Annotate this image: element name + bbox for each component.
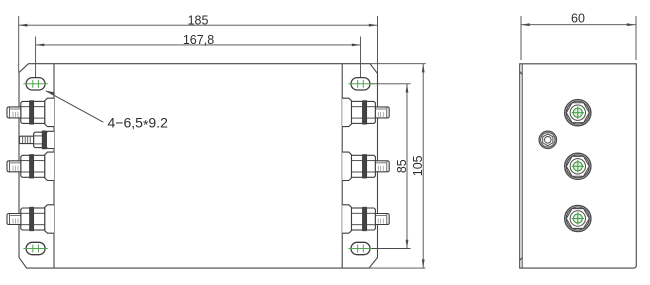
front view right flange line bbox=[341, 64, 343, 268]
terminal R3 bbox=[342, 205, 389, 233]
dimension 167,8 bbox=[36, 33, 361, 78]
ground terminal end view bbox=[539, 131, 556, 148]
terminal end view 3 bbox=[565, 205, 591, 231]
dimension 85 bbox=[372, 84, 411, 249]
dimension 105 bbox=[369, 64, 426, 268]
terminal R1 bbox=[342, 98, 389, 126]
svg-text:4−6,5*9.2: 4−6,5*9.2 bbox=[108, 115, 169, 133]
terminal L3 bbox=[7, 152, 54, 180]
mounting slot bottom-left bbox=[23, 242, 47, 254]
terminal L4 bbox=[7, 205, 54, 233]
svg-text:167,8: 167,8 bbox=[183, 33, 214, 47]
side view flange chamfer marks bbox=[520, 72, 523, 75]
terminal end view 1 bbox=[565, 100, 591, 126]
svg-text:85: 85 bbox=[395, 159, 409, 173]
svg-text:105: 105 bbox=[411, 155, 425, 176]
dimension 60 bbox=[521, 11, 636, 60]
mounting slot top-left bbox=[23, 78, 47, 90]
side view body outline bbox=[520, 64, 637, 268]
terminal L1 bbox=[7, 98, 54, 126]
front view body outline bbox=[19, 64, 378, 268]
mounting slot top-right bbox=[348, 78, 372, 90]
terminal R2 bbox=[342, 152, 389, 180]
side view flange plate edge bbox=[521, 64, 523, 268]
svg-text:60: 60 bbox=[571, 11, 585, 25]
svg-text:185: 185 bbox=[188, 14, 209, 28]
ground terminal L2 bbox=[19, 131, 54, 149]
leader 4-6.5*9.2 bbox=[46, 91, 168, 133]
dimension 185 bbox=[19, 14, 378, 74]
front view left flange line bbox=[53, 64, 55, 268]
terminal end view 2 bbox=[565, 153, 591, 179]
mounting slot bottom-right bbox=[348, 242, 372, 254]
